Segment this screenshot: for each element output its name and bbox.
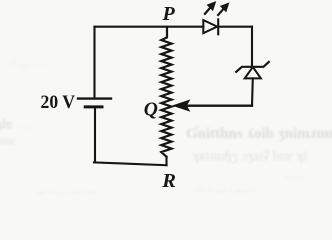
ghost smudge top-left (2, 57, 47, 131)
svg-text:.~ ,,,. ... ,: .~ ,,,. ... , (8, 57, 47, 69)
wiper arrowhead at Q (173, 100, 189, 111)
svg-text:20 V: 20 V (41, 92, 76, 113)
resistor PQR zigzag (potentiometer track) (161, 27, 171, 157)
svg-text:,., ‚. ,‚‚ . ,,„…: ,., ‚. ,‚‚ . ,,„… (196, 182, 256, 194)
svg-text:. .,,. ... ,.. .,‚. ...,: . .,,. ... ,.. .,‚. ..., (30, 184, 97, 196)
wire right rail upper (251, 27, 253, 65)
svg-text:ʞʁɪɪɯɧʒ ɔʒɹɹʡ bnɐ ʞi: ʞʁɪɪɯɧʒ ɔʒɹɹʡ bnɐ ʞi (192, 149, 307, 164)
wire left rail lower (94, 108, 96, 162)
wire right rail lower (251, 78, 254, 105)
wire resistor bottom stub (165, 157, 167, 165)
ghost marks bottom strip (30, 169, 305, 196)
LED emission arrow 1 (204, 2, 215, 15)
zener diode D2 cathode bar with bent tips (236, 62, 269, 72)
LED D1 cathode bar (217, 19, 219, 34)
svg-text:P: P (162, 3, 176, 25)
ghost bleed-through text right line 2 (192, 149, 307, 164)
battery B1 short plate (-) (85, 105, 102, 108)
svg-text:‚…‚,: ‚…‚, (284, 169, 305, 181)
battery B1 long plate (+) (78, 97, 111, 99)
wire bottom (94, 162, 167, 165)
LED emission arrow 2 (217, 3, 228, 16)
ghost marks left edge (0, 117, 16, 147)
wire top left: P node to left rail (95, 26, 204, 28)
ghost bleed-through text right line 1 (186, 126, 332, 142)
svg-text:R: R (161, 170, 176, 192)
LED D1 triangle (203, 20, 217, 33)
wire left rail upper (93, 27, 95, 98)
svg-text:,... . ..,: ,... . .., (2, 119, 30, 131)
wiper arrow wire to Q (188, 104, 252, 106)
wire top: LED cathode to right rail (218, 26, 252, 28)
svg-text:Q: Q (144, 99, 158, 120)
svg-text:ɹnɯ: ɹnɯ (0, 133, 16, 147)
zener diode D2 triangle (245, 67, 261, 79)
svg-text:Ɠnitthns ʎoib ʒnimɹɯɪ: Ɠnitthns ʎoib ʒnimɹɯɪ (186, 126, 332, 142)
